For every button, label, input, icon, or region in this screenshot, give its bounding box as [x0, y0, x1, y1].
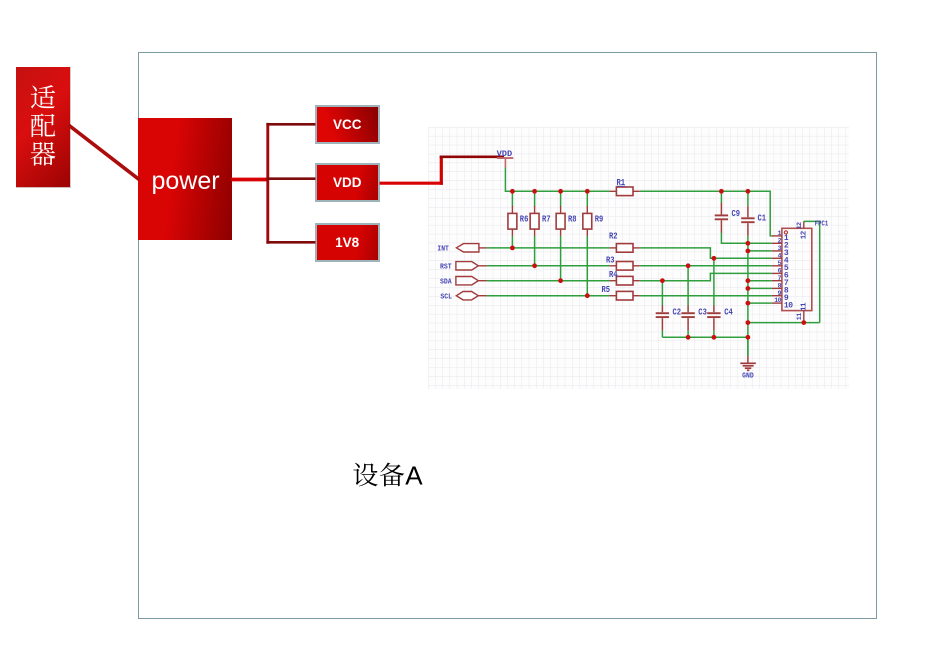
wire R7 top: [534, 191, 536, 206]
svg-text:SCL: SCL: [440, 293, 452, 301]
wire bottom capacitor bus: [662, 336, 748, 338]
connector FPC1: [772, 221, 829, 323]
svg-text:C3: C3: [698, 308, 707, 318]
wire R1 output to C9/C1/pin1: [640, 191, 772, 236]
capacitor C1: [741, 206, 766, 236]
svg-text:SDA: SDA: [440, 278, 452, 286]
resistor R5: [602, 285, 640, 300]
capacitor C3: [681, 305, 706, 330]
wire pin10 stub row: [748, 302, 772, 304]
svg-text:C4: C4: [724, 308, 733, 318]
port SCL: [440, 292, 486, 302]
svg-text:FPC1: FPC1: [815, 221, 829, 229]
block VCC: [315, 105, 380, 144]
label 设备A: [353, 460, 423, 490]
wire C2 bottom: [661, 330, 663, 337]
wire R5 out to pin9: [640, 295, 772, 297]
svg-text:VDD: VDD: [497, 150, 513, 159]
wire power to branch trunk: [231, 178, 269, 182]
wire C4 top: [713, 258, 715, 305]
resistor R3: [606, 255, 640, 270]
wire R8 top: [560, 191, 562, 206]
label R1 underline: [617, 185, 626, 187]
wire R6 bottom: [511, 236, 513, 248]
svg-text:R4: R4: [609, 270, 618, 280]
wire VDD-box to schematic VDD port: [440, 156, 504, 159]
wire GND stem: [747, 337, 749, 356]
wire RST row: [487, 265, 610, 267]
wire R8 bottom: [560, 236, 562, 281]
svg-text:R2: R2: [609, 232, 618, 242]
svg-text:C2: C2: [673, 308, 682, 318]
wire VDD-box output: [380, 182, 443, 185]
svg-text:11: 11: [801, 302, 809, 311]
wire VDD vertical to top bus: [505, 168, 609, 192]
wire branch to 1V8: [266, 241, 315, 244]
block VDD: [315, 163, 380, 202]
block adapter 适配器: [16, 67, 71, 188]
block 1V8: [315, 223, 380, 262]
wire R3 out to pin5: [640, 265, 772, 267]
wire pin3 stub row: [748, 250, 772, 252]
wire pin7 stub row: [748, 280, 772, 282]
port INT: [437, 244, 486, 254]
port SDA: [440, 277, 487, 287]
wire C3 bottom: [687, 330, 689, 337]
wire branch vertical: [266, 123, 269, 244]
svg-text:INT: INT: [437, 246, 449, 254]
wire C1 top: [747, 191, 749, 206]
svg-text:10: 10: [784, 301, 793, 310]
svg-text:R7: R7: [542, 214, 551, 224]
resistor R6: [508, 206, 528, 236]
container frame 设备A: [138, 52, 877, 619]
wire branch to VDD: [266, 177, 315, 180]
wire INT row: [487, 247, 610, 249]
svg-text:R3: R3: [606, 255, 615, 265]
svg-text:11: 11: [796, 313, 803, 320]
wire C3 top: [687, 266, 689, 306]
wire C9 top: [720, 191, 722, 203]
capacitor C4: [707, 305, 733, 330]
wire R7 bottom: [534, 236, 536, 266]
block power: [138, 118, 232, 240]
wire pin12 route: [804, 221, 820, 322]
svg-text:A: A: [405, 460, 423, 490]
wire SDA row: [487, 280, 610, 282]
svg-text:R8: R8: [568, 214, 577, 224]
svg-text:12: 12: [796, 222, 803, 229]
svg-text:R6: R6: [520, 214, 529, 224]
wire SCL row: [487, 295, 610, 297]
capacitor C2: [656, 305, 681, 330]
capacitor C9: [715, 203, 740, 233]
wire C9 bottom to pin2 row: [721, 233, 771, 244]
power port VDD: [497, 157, 514, 159]
junction dots: [510, 189, 806, 340]
wire R6 top: [511, 191, 513, 206]
resistor R2: [609, 232, 640, 253]
svg-text:C9: C9: [732, 209, 741, 219]
svg-text:C1: C1: [758, 213, 767, 223]
svg-text:10: 10: [774, 297, 781, 304]
svg-text:R9: R9: [595, 214, 604, 224]
svg-text:GND: GND: [742, 372, 754, 380]
port RST: [440, 262, 487, 272]
label 适配器: [31, 85, 56, 166]
resistor R1: [609, 178, 639, 196]
wire pin8 stub row: [748, 287, 772, 289]
resistor R8: [556, 206, 576, 236]
schematic sheet background: [428, 127, 849, 389]
resistor R9: [583, 206, 603, 236]
wire R9 top: [586, 191, 588, 206]
wire R2 out to pin4 row: [640, 248, 772, 258]
svg-text:RST: RST: [440, 264, 452, 272]
resistor R7: [530, 206, 550, 236]
wire adapter to power: [69, 125, 140, 180]
wire C4 bottom: [713, 330, 715, 337]
wire R9 bottom: [586, 236, 588, 296]
ground GND: [740, 356, 756, 380]
wire branch to VCC: [266, 123, 315, 126]
svg-text:12: 12: [801, 230, 809, 239]
svg-text:R5: R5: [602, 285, 611, 295]
resistor R4: [609, 270, 640, 285]
wire ground bus vertical: [747, 236, 749, 356]
wire R4 out to pin6 row: [640, 273, 772, 280]
wire pin11 row: [748, 322, 820, 324]
wire C2 top: [661, 281, 663, 306]
